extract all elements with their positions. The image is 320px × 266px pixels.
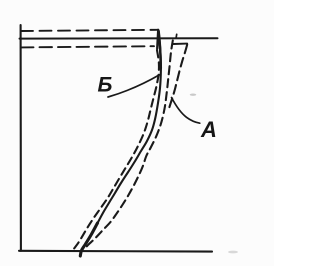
right dashed curve A <box>84 41 173 250</box>
dashed line 2 right hook (7-shape) top bar <box>174 43 188 45</box>
dust speck 1 <box>190 94 196 96</box>
svg-text:Б: Б <box>98 74 113 97</box>
bottom horizontal line <box>19 250 212 253</box>
small tick above top line <box>175 34 178 38</box>
svg-text:А: А <box>200 117 217 142</box>
pointer line for label A <box>172 98 200 124</box>
left dashed curve <box>72 50 159 252</box>
dashed line 2 <box>21 46 154 47</box>
solid curve B bottom thick foot <box>80 223 97 256</box>
top dashed line 1 <box>21 30 158 31</box>
top solid horizontal line <box>20 37 218 39</box>
dashed line 2 right hook down-leg <box>169 45 188 111</box>
solid curve B main <box>80 31 161 256</box>
solid curve B top thick bar <box>159 31 161 68</box>
dashed line 1 corner down-leg <box>157 30 158 49</box>
pointer line for label B <box>108 75 160 98</box>
dust speck 2 <box>228 251 238 254</box>
frame left vertical line <box>20 25 22 251</box>
